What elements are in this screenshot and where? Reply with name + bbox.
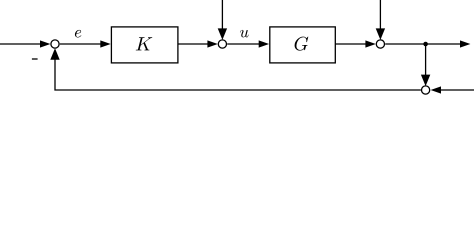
wire sum3 to output: [385, 43, 461, 45]
wire disturbance 1 vertical: [221, 0, 223, 31]
wire e: sum1 to block K: [60, 43, 102, 45]
summing junction sum4: [422, 86, 430, 94]
arrowhead output right: [460, 40, 470, 47]
wire G output to sum3: [335, 43, 366, 45]
arrowhead feedback into sum1 up: [50, 48, 59, 60]
arrowhead disturbance 2 down: [376, 28, 385, 40]
arrowhead into block G: [259, 40, 269, 47]
wire K output to sum2: [178, 43, 209, 45]
block K rectangle: [111, 27, 177, 63]
arrowhead into sum4 down: [421, 75, 430, 87]
arrowhead into sum3: [365, 40, 375, 47]
label G: [295, 37, 309, 51]
arrowhead disturbance 1 down: [218, 28, 227, 40]
summing junction sum1: [51, 40, 59, 48]
block G rectangle: [270, 27, 336, 63]
summing junction sum2: [218, 40, 226, 48]
wire input r: [0, 43, 42, 45]
label e: [75, 30, 81, 38]
wire noise input from right: [440, 89, 474, 91]
label K: [136, 37, 152, 50]
minus sign: [32, 58, 38, 60]
junction dot node: [423, 42, 428, 47]
arrowhead into block K: [100, 40, 110, 47]
arrowhead noise into sum4 left: [431, 86, 441, 93]
label u: [240, 30, 249, 38]
wire u: sum2 to block G: [227, 43, 260, 45]
wire tap down from node to sum4: [425, 44, 427, 76]
wire disturbance 2 vertical: [379, 0, 381, 31]
wire feedback bottom horizontal and up: [55, 59, 421, 91]
arrowhead into sum2: [207, 40, 217, 47]
arrowhead into sum1: [40, 40, 50, 47]
summing junction sum3: [376, 40, 384, 48]
